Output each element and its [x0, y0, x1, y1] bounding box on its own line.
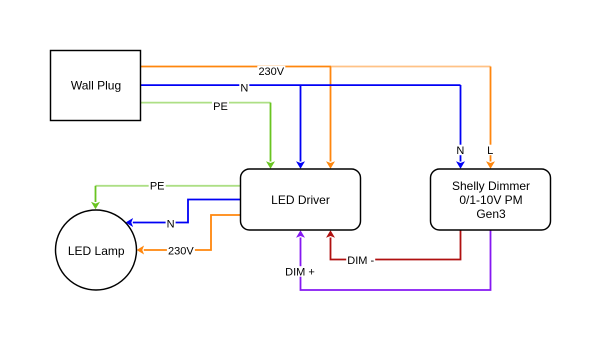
wire DIM+ Shelly to LED driver (purple): [301, 230, 491, 290]
wire DIM- Shelly to LED driver (dark red): [331, 230, 461, 260]
label N (lamp): [166, 218, 176, 229]
svg-text:0/1-10V PM: 0/1-10V PM: [459, 193, 522, 207]
svg-text:Shelly Dimmer: Shelly Dimmer: [452, 179, 530, 193]
svg-text:PE: PE: [150, 181, 165, 193]
svg-text:230V: 230V: [258, 66, 284, 78]
label 230V (top): [257, 66, 285, 77]
svg-text:N: N: [240, 82, 248, 94]
wire N drop into LED driver (blue vertical): [300, 85, 302, 162]
label L (Shelly input): [486, 145, 494, 156]
label PE (lamp): [149, 181, 166, 192]
svg-text:LED Driver: LED Driver: [271, 193, 330, 207]
label N (Shelly input): [455, 145, 465, 156]
svg-text:N: N: [167, 218, 175, 230]
svg-text:L: L: [487, 145, 493, 157]
svg-text:230V: 230V: [168, 245, 194, 257]
label PE (top): [212, 101, 229, 112]
wire N LED driver to lamp (blue): [133, 200, 241, 223]
svg-text:DIM -: DIM -: [347, 255, 374, 267]
label DIM +: [284, 266, 316, 277]
Wall Plug box: [51, 51, 141, 121]
wire N drop into Shelly (blue vertical): [460, 85, 462, 162]
wire 230V LED driver to lamp (orange): [144, 215, 241, 250]
Shelly Dimmer box: [431, 169, 551, 230]
LED Lamp circle: [56, 210, 137, 290]
label 230V (lamp): [167, 245, 195, 256]
wire N wall-plug horizontal (blue): [141, 84, 461, 86]
svg-text:PE: PE: [213, 101, 228, 113]
wire 230V continuation to Shelly L (light orange segment): [331, 66, 491, 68]
svg-text:N: N: [456, 145, 464, 157]
label DIM -: [346, 255, 375, 266]
svg-text:DIM +: DIM +: [285, 266, 315, 278]
wire 230V wall-plug to LED driver (orange, shared horizontal run): [141, 66, 332, 68]
svg-text:Wall Plug: Wall Plug: [71, 79, 121, 93]
svg-text:Gen3: Gen3: [476, 207, 506, 221]
wire L drop into Shelly (orange vertical): [490, 67, 492, 162]
wire 230V drop into LED driver (orange vertical): [330, 67, 332, 162]
LED Driver box: [241, 169, 361, 230]
wire PE LED driver to lamp (green): [96, 185, 241, 187]
svg-text:LED Lamp: LED Lamp: [68, 244, 125, 258]
label N (top): [239, 82, 249, 93]
wire PE wall-plug to LED driver (green, light horizontal): [141, 102, 271, 104]
